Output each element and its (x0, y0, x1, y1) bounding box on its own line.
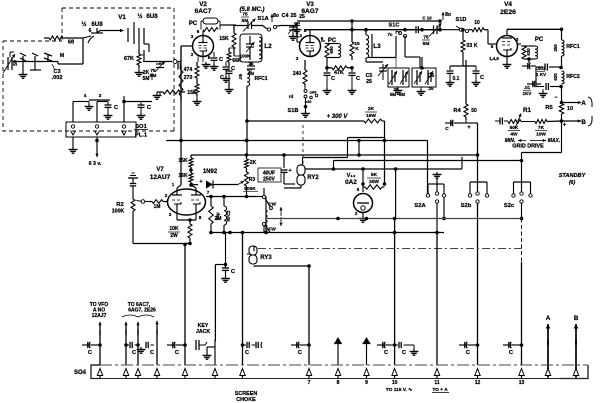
capacitor C7 grid coupling (178, 62, 181, 73)
resistor 10K 2W (cathode) (168, 218, 192, 243)
trimmer 25/5M b (400, 70, 408, 85)
lead 80 (band tap) (270, 13, 279, 22)
SO4 pin B (573, 369, 578, 379)
svg-text:1KV: 1KV (523, 91, 533, 96)
ground (S2A) (433, 172, 442, 184)
ground (V2 divider) (193, 96, 202, 105)
svg-text:C: C (220, 75, 224, 81)
resistor 7K 10W (521, 120, 562, 138)
parasitic choke PC (V4) (517, 37, 544, 61)
SO4 pin 5 (182, 369, 187, 379)
capacitor C lead14 (503, 342, 523, 356)
pin label 0A2 (355, 211, 358, 216)
SO4 pin 4 (154, 369, 159, 379)
svg-text:TO + A: TO + A (432, 387, 448, 393)
ground (mult) (225, 80, 234, 93)
svg-text:C: C (150, 350, 154, 356)
svg-text:RFC1: RFC1 (254, 76, 267, 82)
svg-text:4W: 4W (510, 132, 518, 138)
svg-text:5M: 5M (143, 76, 150, 82)
wire tank top (234, 25, 262, 27)
wire grid a (164, 201, 168, 203)
wire R4 bottom (466, 123, 479, 157)
ground (C2) (19, 62, 28, 79)
label SO4 (74, 370, 87, 376)
ground (leads 2-3) (137, 345, 146, 353)
svg-text:10: 10 (392, 380, 398, 386)
choke RFC 50u (keyer) (215, 195, 231, 233)
tube V4 envelope (497, 36, 518, 57)
switch S2b (461, 182, 489, 209)
svg-text:67K: 67K (124, 56, 134, 62)
capacitor C lead5 (167, 342, 187, 356)
ground (S1B) (301, 107, 310, 118)
tube 0A2 labels (345, 173, 357, 186)
svg-text:V1: V1 (118, 14, 126, 21)
svg-text:1,4,6: 1,4,6 (489, 56, 499, 61)
svg-text:rd: rd (289, 94, 294, 99)
svg-text:K: K (355, 46, 359, 52)
tube 0A2 envelope (354, 194, 373, 213)
svg-text:C: C (219, 57, 223, 63)
choke RFC2 (553, 68, 580, 89)
resistor 5K 20W (361, 172, 386, 189)
svg-text:0.1: 0.1 (453, 76, 460, 82)
resistor 1M (145, 200, 168, 210)
tube V1 6U8 label (81, 14, 126, 28)
label (5.8 MC.) (239, 7, 264, 13)
terminal lead 10 (363, 337, 371, 365)
svg-text:RFC2: RFC2 (566, 74, 580, 80)
svg-text:630: 630 (526, 48, 531, 56)
wire S2A right contact down (442, 198, 446, 221)
pentode half V1b 6U8 (128, 26, 149, 52)
resistor 2K 5M (143, 70, 152, 82)
svg-text:C: C (384, 350, 388, 356)
capacitor (R1 input) (495, 118, 508, 125)
svg-text:7: 7 (308, 380, 311, 386)
svg-text:12AU7: 12AU7 (150, 174, 171, 181)
svg-text:5M: 5M (423, 41, 430, 47)
svg-text:8: 8 (337, 380, 340, 386)
SO4 pin 7 (240, 369, 245, 379)
tube V4 internals (502, 29, 512, 56)
svg-text:C: C (480, 75, 484, 81)
lead A (560, 100, 586, 107)
double arrow (switch travel) (279, 207, 282, 226)
plug pin 2 (95, 125, 100, 135)
svg-text:7o: 7o (388, 32, 393, 37)
resistor 270 (184, 75, 199, 96)
wire S1C to tank bottom (368, 31, 396, 58)
svg-text:13: 13 (519, 380, 525, 386)
svg-text:RFC2: RFC2 (226, 210, 231, 222)
svg-text:C: C (331, 76, 335, 82)
capacitor C lead8 (291, 342, 311, 356)
wire R2 down (132, 215, 134, 244)
svg-text:−: − (554, 95, 557, 101)
pin labels V4 (489, 37, 519, 61)
SO4 pin 11 (392, 369, 398, 387)
tube 12AU7 envelope (168, 189, 206, 215)
parasitic choke PC (V2 plate) (189, 18, 220, 32)
SO4 pin 2 (123, 369, 128, 379)
label SCREEN CHOKE (235, 391, 258, 403)
wire bus h4 (0A2 top) (306, 167, 462, 171)
SO4 pin 14 (519, 369, 525, 387)
ground (0A2) (359, 213, 368, 223)
resistor 15K (keyer) (178, 155, 193, 170)
lead 4 (155, 321, 158, 365)
switch S2A (414, 184, 445, 209)
svg-text:PL.1: PL.1 (135, 133, 148, 139)
wire RY2 connections (284, 164, 306, 188)
wire x405 to trimmer bank (405, 31, 420, 68)
wire RFC2 to A node (554, 87, 561, 103)
svg-text:1 KV: 1 KV (536, 72, 547, 77)
svg-text:(6): (6) (569, 180, 576, 186)
svg-text:A: A (546, 315, 551, 322)
label KEY JACK (196, 323, 210, 335)
svg-text:JACK: JACK (196, 329, 210, 335)
svg-text:R4: R4 (453, 108, 461, 114)
cathode resistor 240 (293, 57, 307, 87)
svg-text:10: 10 (474, 20, 480, 26)
resistor 15K (multiplier grid) (219, 25, 240, 56)
wire V2 plate (197, 29, 203, 36)
svg-text:C: C (356, 76, 360, 82)
ground (keying C) (221, 276, 230, 282)
svg-text:25: 25 (366, 79, 372, 85)
wire VFO tuning to grid (10, 52, 48, 62)
svg-text:25: 25 (428, 86, 434, 91)
svg-text:12: 12 (475, 380, 481, 386)
capacitor (R4 bypass) (445, 117, 471, 132)
ground (67K) (135, 68, 144, 76)
svg-text:V7: V7 (156, 167, 164, 173)
dashed gang line S1 (302, 125, 304, 164)
tube V2 6AC7 labels (195, 1, 212, 15)
svg-text:10K: 10K (169, 226, 179, 232)
lead 9 (relay supply) (337, 346, 339, 348)
resistor 47K (V3) (327, 58, 352, 77)
lead 7 (screen choke) (242, 233, 244, 366)
svg-text:4: 4 (84, 93, 87, 98)
SO4 pin A (545, 369, 550, 379)
resistor 47K (V2 screen) (184, 62, 199, 82)
svg-text:620: 620 (553, 73, 558, 81)
svg-text:2: 2 (355, 211, 358, 216)
labels 25 5M 5M (390, 87, 405, 97)
svg-text:SO4: SO4 (74, 370, 87, 376)
capacitor C2 (grid) (20, 53, 26, 62)
wire S1A to C4/grid (281, 25, 297, 27)
capacitor C lead13 (459, 342, 479, 356)
label +300 V (327, 114, 349, 120)
switch (CW position) (262, 188, 276, 210)
tube 12AU7 labels (150, 167, 171, 181)
tube V3 envelope (300, 36, 321, 57)
svg-text:C: C (245, 350, 249, 356)
wire x230 drop (225, 233, 227, 237)
wire gray bus y218.5 (266, 217, 522, 221)
wire V4 grid (488, 30, 497, 49)
relay RY3 coil (249, 246, 272, 264)
svg-text:CHOKE: CHOKE (236, 397, 256, 403)
label MIN MAX (505, 138, 561, 144)
svg-text:R2: R2 (116, 202, 123, 208)
capacitor (R2 top) (128, 173, 138, 187)
svg-text:S1A: S1A (257, 16, 269, 22)
svg-text:50: 50 (471, 108, 477, 114)
choke RFC1 .05 (238, 70, 268, 155)
svg-text:.01: .01 (524, 85, 531, 90)
svg-text:2E26: 2E26 (500, 9, 516, 16)
wire PC bottom lead (528, 59, 530, 63)
svg-text:V4: V4 (504, 1, 512, 8)
capacitor C heater bypass 3 (137, 102, 152, 120)
svg-text:C 10: C 10 (422, 16, 432, 21)
trimmer C5 25 (366, 58, 388, 85)
svg-text:RY2: RY2 (307, 175, 319, 181)
capacitor C (keying) (222, 265, 236, 277)
svg-text:240: 240 (293, 71, 302, 77)
label 100K (240, 54, 252, 59)
svg-text:.05: .05 (238, 73, 243, 80)
trimmer capacitor 75/5M (feedback) (150, 61, 165, 79)
wire grid V3 (297, 26, 301, 43)
variable capacitor C1 50uuF (VFO tuning) (3, 54, 19, 73)
ground (key jack) (203, 347, 212, 359)
resistor grid leak V2 (160, 66, 183, 100)
lead 3 (136, 322, 139, 365)
svg-text:2K: 2K (368, 106, 375, 112)
label GRID DRIVE (512, 144, 544, 150)
wire 16K to plate b (189, 183, 196, 188)
resistor 2K 16W (364, 106, 382, 123)
lead 1 to VFO (98, 322, 101, 365)
wire heater pair (89, 100, 110, 103)
wire cathode bus y243 (133, 242, 192, 246)
wire plate line junctions (403, 28, 442, 32)
svg-text:50K: 50K (510, 125, 519, 131)
svg-text:6 3 v.: 6 3 v. (89, 161, 102, 167)
lead A (546, 315, 551, 377)
svg-text:0A2: 0A2 (345, 179, 357, 186)
labels C6 25 (428, 73, 435, 91)
capacitor C (V2 cathode) (210, 52, 223, 70)
capacitor (osc trimmer) (30, 53, 41, 70)
resistor 66K (227, 48, 242, 66)
terminal lead 9 (334, 337, 342, 365)
node M (48, 38, 83, 64)
wire bus y232.5 (209, 231, 444, 235)
svg-text:PC: PC (189, 21, 198, 27)
wire grid bus down (180, 46, 182, 66)
svg-text:½: ½ (81, 21, 86, 28)
SO4 pin 13 (475, 369, 481, 387)
potentiometer R3 500K (243, 172, 258, 192)
svg-text:+: + (467, 125, 471, 131)
svg-text:6: 6 (197, 29, 200, 34)
svg-text:15K: 15K (187, 90, 197, 96)
pin labels V2 (191, 34, 211, 60)
svg-text:5oμ: 5oμ (215, 212, 220, 220)
svg-text:5M: 5M (150, 73, 157, 79)
choke RFC1 (553, 29, 580, 69)
wire R3 bottom to grid b (206, 186, 266, 198)
lead B (574, 315, 579, 377)
lead 12 (+A) (436, 233, 438, 366)
ground (heater 1) (85, 102, 94, 111)
svg-text:½: ½ (137, 13, 142, 20)
svg-text:C: C (445, 126, 449, 132)
wire bus h3 (334, 160, 522, 162)
wire bus drop x352 (350, 19, 354, 31)
switch (FW position) (262, 222, 276, 232)
svg-text:.002: .002 (52, 75, 63, 81)
svg-text:S1D: S1D (456, 17, 467, 23)
svg-text:3: 3 (169, 212, 172, 217)
capacitor C3 .002 (44, 53, 62, 81)
resistor 2M (bias) (209, 195, 222, 233)
lead 8 (307, 264, 311, 365)
ground (bank2) (417, 87, 426, 95)
svg-text:2: 2 (191, 52, 194, 57)
svg-text:FW: FW (268, 227, 276, 233)
wire cathode join (177, 215, 196, 221)
svg-text:75: 75 (423, 35, 429, 41)
trimmer 15/5M below L2 (247, 61, 255, 76)
svg-text:+: + (200, 179, 203, 185)
capacitor (RFC junction b) (536, 67, 561, 90)
svg-text:o60: o60 (310, 90, 318, 95)
ground (lead11 caps) (409, 345, 418, 355)
svg-text:8o: 8o (445, 12, 451, 18)
svg-text:S2c: S2c (504, 203, 515, 209)
resistor 33K (461, 28, 478, 60)
svg-text:C: C (402, 350, 406, 356)
wire 2K to dropper (382, 121, 386, 184)
potentiometer R2 100K (112, 187, 145, 215)
tube V3 internals (306, 36, 315, 57)
capacitor C heater bypass 2 (97, 102, 119, 120)
svg-text:16K: 16K (178, 173, 188, 179)
lead B (560, 119, 586, 129)
svg-text:7: 7 (207, 190, 210, 195)
wire +300V (247, 120, 364, 122)
pin labels V3 (296, 28, 324, 61)
svg-text:100K: 100K (112, 209, 125, 215)
svg-text:50: 50 (13, 60, 19, 66)
lead 80 (V3 area) (438, 12, 451, 30)
tube V4 2E26 labels (500, 1, 516, 16)
pentode half V1b 6U8 label (137, 13, 158, 20)
svg-text:A: A (581, 100, 586, 107)
resistor 15K (V2) (153, 90, 197, 99)
resistor 15K (V3 screen) (350, 30, 360, 60)
wire pin1 up (73, 93, 102, 122)
svg-text:B: B (574, 315, 579, 322)
svg-text:R3: R3 (249, 177, 256, 183)
trimmer T5 5M series (422, 24, 442, 48)
svg-text:3: 3 (296, 56, 299, 61)
wire S2c pole down (520, 204, 524, 263)
brace leads 2-3 (122, 315, 154, 317)
svg-text:+: + (563, 123, 567, 129)
lead 13 (S2b line) (477, 300, 479, 365)
svg-text:3: 3 (516, 37, 519, 42)
wire S2A pole down (436, 204, 438, 233)
diode 1N92 (191, 169, 238, 189)
svg-text:33 K: 33 K (466, 43, 477, 49)
relay RY2 coil (297, 165, 319, 185)
wire 0A2 box right (385, 169, 396, 219)
trimmer C6 a (414, 70, 422, 85)
triode b internals (191, 188, 201, 215)
wire bus h2 (12AU7 B+) (191, 153, 478, 157)
svg-text:GRID DRIVE: GRID DRIVE (512, 144, 544, 150)
bracket A-B (588, 97, 592, 126)
plug pin 3 (122, 125, 127, 135)
svg-text:5: 5 (491, 44, 494, 49)
resistor 2K (keyer) (245, 155, 257, 172)
wire S2c feed (520, 153, 524, 183)
parasitic choke PC (V3) (321, 38, 341, 58)
svg-text:6U8: 6U8 (91, 21, 103, 28)
svg-text:25: 25 (299, 14, 305, 20)
SO4 pin 1 (97, 369, 102, 379)
svg-text:S2A: S2A (414, 203, 426, 209)
wire S2b pole down (477, 204, 479, 301)
lead 11 (115V) (393, 219, 397, 366)
SO1 PL1 labels (134, 124, 148, 139)
capacitor C lead7 pair (241, 342, 262, 356)
wire h1-h2 connector x359 (357, 139, 361, 157)
svg-text:10W: 10W (536, 132, 546, 138)
wire dash-dot y248 (258, 248, 522, 250)
wire h2 drop to S2b (477, 155, 479, 182)
svg-text:PC: PC (535, 37, 544, 43)
svg-text:B: B (581, 119, 586, 126)
svg-text:9: 9 (365, 380, 368, 386)
coupling capacitor C8 (405, 16, 440, 34)
svg-text:RFC1: RFC1 (566, 44, 580, 50)
SO4 bottom rail (91, 378, 588, 380)
ground (V4 cathode) (503, 57, 512, 69)
svg-text:CW: CW (268, 202, 276, 208)
capacitor 25 + ground (left of V3) (293, 14, 305, 33)
tube V2 6AC7 envelope (193, 36, 214, 57)
potentiometer R1 50K 4W (508, 107, 532, 138)
capacitor C (V3 1) (323, 66, 335, 94)
wire 33K down (450, 60, 476, 66)
trimmer 25/5M a (389, 70, 397, 85)
lead 10 (366, 346, 368, 348)
capacitor C lead1 (82, 342, 102, 356)
svg-text:12AJ7: 12AJ7 (92, 313, 107, 319)
resistor 67K (124, 50, 141, 68)
svg-text:15K: 15K (178, 158, 188, 164)
node (VFO output terminal on shield) (173, 60, 177, 64)
svg-text:1N92: 1N92 (203, 169, 218, 175)
svg-text:25: 25 (291, 13, 297, 19)
wire B node down (522, 121, 562, 153)
wire 40uF bottom (284, 180, 295, 184)
svg-text:474: 474 (184, 67, 193, 73)
svg-text:10: 10 (567, 106, 573, 112)
capacitor (RFC junction a) (536, 64, 561, 71)
